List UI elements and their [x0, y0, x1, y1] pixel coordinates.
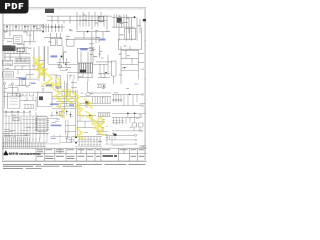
svg-text:DELTA ELECTR. INC.: DELTA ELECTR. INC.: [19, 152, 41, 156]
svg-text:MEB: MEB: [9, 152, 19, 156]
